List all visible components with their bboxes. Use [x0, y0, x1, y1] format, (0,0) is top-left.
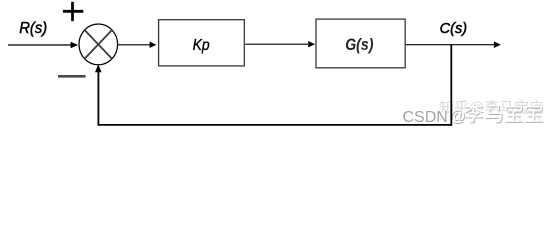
arrowhead into G(s) [308, 41, 315, 47]
arrowhead into summing junction [71, 42, 79, 49]
arrowhead into Kp [150, 42, 157, 48]
wire feedback up [97, 72, 99, 125]
summing junction X [85, 30, 112, 59]
minus sign [58, 75, 86, 78]
wire Kp to G(s) [245, 43, 308, 45]
arrowhead into summing junction bottom [95, 64, 102, 72]
svg-text:CSDN: CSDN [403, 109, 448, 126]
svg-text:C(s): C(s) [440, 20, 468, 37]
wire output [406, 44, 494, 46]
wire feedback branch down [450, 45, 452, 126]
plus sign [63, 2, 83, 21]
block Kp [159, 20, 245, 66]
wire junction to Kp [118, 44, 150, 46]
svg-text:Kp: Kp [193, 37, 210, 54]
svg-text:G(s): G(s) [345, 36, 373, 54]
block G(s) [316, 19, 405, 68]
arrowhead output [494, 41, 501, 48]
wire feedback bottom [98, 124, 453, 126]
wire input R(s) [8, 44, 71, 46]
svg-text:R(s): R(s) [19, 20, 47, 37]
svg-text:李马宝宝: 李马宝宝 [464, 103, 544, 126]
summing junction [79, 24, 118, 65]
